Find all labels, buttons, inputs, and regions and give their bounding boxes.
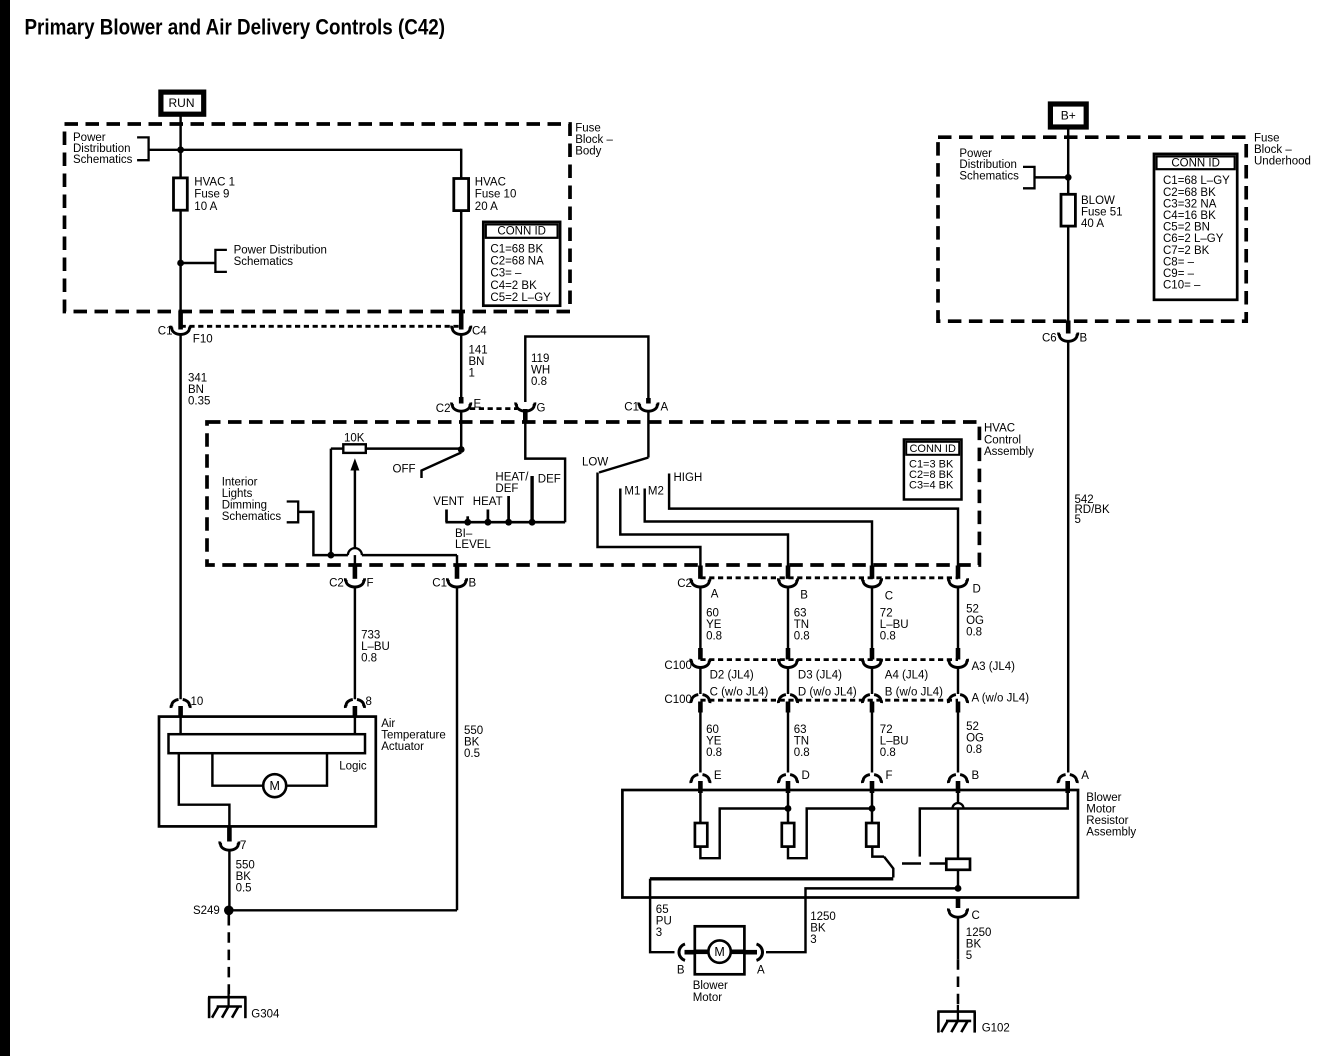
wire 52 OG upper bbox=[957, 588, 959, 650]
node relay output bbox=[955, 885, 962, 892]
svg-text:0.8: 0.8 bbox=[880, 631, 896, 643]
svg-text:A (w/o JL4): A (w/o JL4) bbox=[972, 692, 1030, 704]
contact HEAT/DEF bbox=[507, 496, 510, 522]
svg-text:60: 60 bbox=[706, 724, 719, 736]
connector C100 lower col 1 bbox=[691, 695, 698, 704]
node power distribution tap underhood bbox=[1065, 174, 1072, 181]
mode switch feed from G bbox=[523, 409, 528, 424]
svg-text:5: 5 bbox=[966, 950, 972, 962]
contact BI-LEVEL bbox=[466, 516, 469, 522]
connector C100 upper col 1 bbox=[698, 648, 703, 660]
connector C1 B bbox=[455, 566, 460, 579]
svg-text:TN: TN bbox=[794, 619, 809, 631]
svg-text:0.8: 0.8 bbox=[880, 747, 896, 759]
air temperature actuator box bbox=[159, 717, 376, 827]
in-harness dotted line C2 row bbox=[700, 576, 958, 579]
wire hop over wiper wire bbox=[348, 548, 362, 555]
svg-text:5: 5 bbox=[1075, 514, 1081, 526]
relay switch common bar bbox=[650, 877, 893, 880]
blower motor resistor assembly box bbox=[622, 790, 1078, 898]
svg-text:Schematics: Schematics bbox=[222, 511, 282, 523]
wire 65 PU to motor bbox=[650, 879, 674, 952]
svg-text:D: D bbox=[973, 584, 981, 596]
svg-text:3: 3 bbox=[810, 934, 816, 946]
in-connector dotted line E to G bbox=[470, 407, 517, 410]
wire 60 YE lower bbox=[699, 713, 701, 773]
wire 550 BK pin7 to S249 bbox=[228, 851, 230, 911]
node power distribution tap lower bbox=[177, 260, 184, 267]
svg-text:BN: BN bbox=[469, 356, 485, 368]
connector C2 E bbox=[459, 397, 464, 404]
svg-text:C3=4 BK: C3=4 BK bbox=[909, 479, 954, 491]
page edge bar bbox=[0, 0, 10, 1056]
wire 72 L-BU upper bbox=[871, 588, 873, 650]
svg-text:Assembly: Assembly bbox=[984, 446, 1034, 458]
svg-text:HVAC 1: HVAC 1 bbox=[194, 177, 235, 189]
svg-text:C2: C2 bbox=[436, 403, 451, 415]
svg-text:C4=16 BK: C4=16 BK bbox=[1163, 210, 1216, 222]
svg-text:Resistor: Resistor bbox=[1086, 815, 1128, 827]
connector C100 lower col 3 bbox=[862, 695, 869, 704]
actuator pin 7 internal wire bbox=[179, 753, 230, 826]
svg-text:C3=32 NA: C3=32 NA bbox=[1163, 198, 1217, 210]
svg-text:B: B bbox=[1080, 332, 1088, 344]
in-harness dotted line C100 upper row bbox=[700, 658, 958, 661]
svg-text:Interior: Interior bbox=[222, 477, 258, 489]
wire fuse51 to C6 bbox=[1067, 226, 1069, 321]
connector C100 lower col 2 bbox=[778, 695, 785, 704]
svg-text:C4=2 BK: C4=2 BK bbox=[490, 280, 537, 292]
svg-text:Underhood: Underhood bbox=[1254, 156, 1311, 168]
connector C6 B bbox=[1066, 321, 1071, 334]
wire fuse10 to connector C4 bbox=[460, 211, 462, 312]
connector C4 bbox=[459, 311, 464, 330]
svg-text:G: G bbox=[537, 403, 546, 415]
svg-text:72: 72 bbox=[880, 608, 893, 620]
fuse F9 HVAC 1 10A bbox=[174, 178, 188, 210]
resistor R1 bbox=[695, 823, 707, 847]
svg-text:52: 52 bbox=[966, 721, 979, 733]
svg-text:Motor: Motor bbox=[1086, 803, 1116, 815]
svg-text:40 A: 40 A bbox=[1081, 218, 1104, 230]
svg-text:0.8: 0.8 bbox=[794, 747, 810, 759]
svg-text:0.8: 0.8 bbox=[794, 631, 810, 643]
wire 1250 BK inside box bbox=[766, 888, 958, 952]
svg-text:A: A bbox=[1081, 770, 1089, 782]
svg-text:C: C bbox=[972, 910, 980, 922]
svg-text:LEVEL: LEVEL bbox=[455, 539, 491, 551]
actuator pin 10 bbox=[171, 699, 178, 708]
switch blade OFF position bbox=[422, 453, 462, 479]
wire 52 OG lower bbox=[957, 713, 959, 773]
svg-text:CONN ID: CONN ID bbox=[1171, 157, 1220, 169]
bus wire fuse9 to fuse10 bbox=[181, 149, 462, 151]
svg-text:C4: C4 bbox=[472, 325, 487, 337]
svg-text:A4 (JL4): A4 (JL4) bbox=[885, 670, 929, 682]
svg-text:B+: B+ bbox=[1061, 109, 1076, 123]
svg-text:C9= –: C9= – bbox=[1163, 268, 1195, 280]
resistor assembly pin D bbox=[778, 775, 785, 784]
svg-text:D2 (JL4): D2 (JL4) bbox=[710, 670, 754, 682]
svg-text:BK: BK bbox=[236, 871, 252, 883]
blower motor terminal A bbox=[757, 944, 763, 960]
svg-text:0.8: 0.8 bbox=[361, 652, 377, 664]
svg-text:A: A bbox=[757, 964, 765, 976]
svg-text:HVAC: HVAC bbox=[984, 423, 1015, 435]
wire 119 WH loop G to A bbox=[525, 337, 648, 403]
ground G102 bbox=[937, 1010, 976, 1013]
svg-text:C8= –: C8= – bbox=[1163, 256, 1195, 268]
wire C100 link col 3 bbox=[871, 669, 873, 695]
svg-text:Control: Control bbox=[984, 434, 1021, 446]
svg-text:119: 119 bbox=[531, 353, 549, 365]
wire 63 TN lower bbox=[787, 713, 789, 773]
wire C100 link col 1 bbox=[699, 669, 701, 695]
node power distribution tap upper bbox=[177, 146, 184, 153]
svg-text:C1=68 L–GY: C1=68 L–GY bbox=[1163, 175, 1230, 187]
svg-text:M: M bbox=[714, 945, 724, 959]
svg-text:HVAC: HVAC bbox=[475, 177, 506, 189]
resistor assembly pin B bbox=[948, 775, 955, 784]
svg-text:Power: Power bbox=[959, 148, 992, 160]
contact DEF bbox=[530, 476, 533, 522]
svg-text:BK: BK bbox=[966, 939, 982, 951]
wire RUN to fuse HVAC 1 bbox=[179, 115, 181, 179]
wire 10K left leg bbox=[330, 449, 332, 555]
svg-text:B (w/o JL4): B (w/o JL4) bbox=[885, 686, 943, 698]
connector C2 pin C bbox=[870, 566, 875, 579]
svg-text:OFF: OFF bbox=[393, 464, 416, 476]
actuator pin 8 bbox=[345, 699, 352, 708]
svg-text:Air: Air bbox=[381, 718, 395, 730]
svg-text:0.8: 0.8 bbox=[706, 631, 722, 643]
node D column bbox=[785, 805, 792, 812]
svg-text:3: 3 bbox=[656, 927, 662, 939]
svg-text:Fuse 9: Fuse 9 bbox=[194, 189, 229, 201]
svg-text:0.8: 0.8 bbox=[966, 744, 982, 756]
svg-text:Power Distribution: Power Distribution bbox=[234, 245, 327, 257]
actuator motor M bbox=[263, 774, 286, 797]
svg-text:0.5: 0.5 bbox=[236, 882, 252, 894]
svg-text:Fuse: Fuse bbox=[575, 123, 601, 135]
wire 60 YE upper bbox=[699, 588, 701, 650]
svg-text:C2: C2 bbox=[329, 578, 344, 590]
svg-text:HEAT: HEAT bbox=[473, 496, 503, 508]
wire 63 TN upper bbox=[787, 588, 789, 650]
conn id table body bbox=[483, 222, 560, 306]
svg-text:0.8: 0.8 bbox=[531, 376, 547, 388]
svg-text:S249: S249 bbox=[193, 905, 220, 917]
actuator pin 7 connector bbox=[227, 826, 232, 842]
relay switch blade bbox=[884, 857, 893, 878]
svg-text:Distribution: Distribution bbox=[959, 159, 1017, 171]
contact HEAT bbox=[487, 510, 490, 523]
wire pin E to resistor 1 bbox=[699, 792, 701, 823]
svg-text:Actuator: Actuator bbox=[381, 741, 424, 753]
svg-text:63: 63 bbox=[794, 608, 807, 620]
wire pin B to relay coil with hop bbox=[957, 792, 959, 803]
svg-text:Body: Body bbox=[575, 146, 601, 158]
blower motor terminal B bbox=[679, 944, 685, 960]
wire B+ to fuse 51 bbox=[1067, 127, 1069, 194]
connector C ground lead bbox=[956, 897, 961, 909]
wire 733 L-BU to actuator pin 8 bbox=[354, 588, 356, 700]
svg-text:Logic: Logic bbox=[339, 760, 367, 772]
svg-text:733: 733 bbox=[361, 629, 380, 641]
power distribution schematics reference lower bbox=[215, 250, 227, 272]
svg-text:LOW: LOW bbox=[582, 456, 608, 468]
connector C100 upper col 3 bbox=[870, 648, 875, 660]
svg-text:C2: C2 bbox=[677, 578, 692, 590]
wire pin D to resistor 2 bbox=[787, 792, 789, 823]
wire 550 BK from C1 B to S249 bbox=[456, 588, 458, 911]
svg-text:D: D bbox=[802, 770, 810, 782]
RUN ignition feed box bbox=[161, 92, 204, 114]
svg-text:YE: YE bbox=[706, 736, 722, 748]
wire 72 L-BU lower bbox=[871, 713, 873, 773]
svg-text:341: 341 bbox=[188, 373, 207, 385]
svg-text:HEAT/: HEAT/ bbox=[495, 471, 529, 483]
wire 341 BN to actuator pin 10 bbox=[179, 335, 181, 699]
svg-text:C (w/o JL4): C (w/o JL4) bbox=[710, 686, 769, 698]
relay actuation dashed link bbox=[902, 862, 945, 864]
svg-text:7: 7 bbox=[240, 840, 246, 852]
wire R2 link to F column bbox=[788, 809, 872, 859]
svg-text:D (w/o JL4): D (w/o JL4) bbox=[798, 686, 857, 698]
relay throw contact from pin A bbox=[920, 792, 1068, 857]
svg-text:OG: OG bbox=[966, 615, 984, 627]
svg-text:C1: C1 bbox=[158, 325, 173, 337]
in-harness dotted line C1 to C4 bbox=[181, 325, 462, 328]
svg-text:A: A bbox=[661, 402, 669, 414]
svg-text:0.8: 0.8 bbox=[966, 627, 982, 639]
wire R1 link to D column bbox=[700, 809, 788, 859]
svg-text:Blower: Blower bbox=[693, 980, 728, 992]
svg-text:Blower: Blower bbox=[1086, 792, 1121, 804]
hvac control assembly dashed box bbox=[207, 422, 979, 565]
contact VENT bbox=[445, 510, 448, 523]
blower motor box bbox=[695, 926, 745, 974]
node dimming junction bbox=[328, 552, 335, 559]
wire E to off switch bbox=[460, 411, 462, 450]
wire 542 RD/BK to resistor pin A bbox=[1067, 342, 1069, 773]
svg-text:1: 1 bbox=[469, 368, 475, 380]
svg-text:B: B bbox=[800, 589, 808, 601]
svg-text:Schematics: Schematics bbox=[234, 256, 294, 268]
svg-text:C3= –: C3= – bbox=[490, 268, 522, 280]
svg-text:A: A bbox=[711, 588, 719, 600]
wire fuse9 to connector C1 bbox=[179, 210, 181, 312]
wire C100 link col 4 bbox=[957, 669, 959, 695]
svg-text:M: M bbox=[269, 779, 279, 793]
svg-text:C100: C100 bbox=[664, 694, 692, 706]
connector C1 A bbox=[639, 403, 658, 412]
wire C100 link col 2 bbox=[787, 669, 789, 695]
svg-text:DEF: DEF bbox=[495, 483, 518, 495]
svg-text:CONN ID: CONN ID bbox=[497, 226, 546, 238]
connector C100 upper col 4 bbox=[956, 648, 961, 660]
svg-text:C5=2 BN: C5=2 BN bbox=[1163, 222, 1210, 234]
svg-text:C2=68 BK: C2=68 BK bbox=[1163, 187, 1216, 199]
connector C100 lower col 4 bbox=[948, 695, 955, 704]
svg-text:10K: 10K bbox=[344, 432, 365, 444]
ground G304 bbox=[208, 996, 247, 999]
potentiometer wiper arrow bbox=[350, 458, 359, 470]
mode contact bus bbox=[446, 521, 566, 524]
svg-text:72: 72 bbox=[880, 724, 893, 736]
actuator motor loop wires bbox=[212, 753, 263, 786]
connector C2 F bbox=[345, 578, 364, 587]
svg-text:10: 10 bbox=[191, 696, 204, 708]
svg-text:0.35: 0.35 bbox=[188, 396, 210, 408]
svg-text:C6=2 L–GY: C6=2 L–GY bbox=[1163, 233, 1224, 245]
svg-text:BK: BK bbox=[464, 737, 480, 749]
svg-text:Fuse 10: Fuse 10 bbox=[475, 189, 517, 201]
svg-text:L–BU: L–BU bbox=[361, 641, 390, 653]
resistor assembly pin A bbox=[1058, 775, 1065, 784]
svg-text:141: 141 bbox=[469, 345, 488, 357]
svg-text:BN: BN bbox=[188, 384, 204, 396]
svg-text:L–BU: L–BU bbox=[880, 619, 909, 631]
blower motor M symbol bbox=[708, 940, 730, 962]
wire to C1 B bbox=[362, 554, 457, 556]
in-harness dotted line C100 lower row bbox=[700, 699, 958, 702]
svg-text:Dimming: Dimming bbox=[222, 500, 267, 512]
svg-text:C2=68 NA: C2=68 NA bbox=[490, 256, 544, 268]
connector C100 upper col 2 bbox=[786, 648, 791, 660]
wire S249 to C1 B wire bbox=[229, 909, 457, 911]
wire R3 to relay switch bbox=[872, 847, 884, 857]
svg-text:Primary Blower and Air Deliver: Primary Blower and Air Delivery Controls… bbox=[25, 15, 446, 40]
svg-text:1250: 1250 bbox=[810, 911, 836, 923]
svg-text:20 A: 20 A bbox=[475, 201, 498, 213]
svg-text:63: 63 bbox=[794, 724, 807, 736]
blower switch blade LOW bbox=[647, 411, 649, 458]
svg-text:BLOW: BLOW bbox=[1081, 195, 1115, 207]
svg-text:Motor: Motor bbox=[693, 992, 723, 1004]
svg-text:Fuse: Fuse bbox=[1254, 133, 1280, 145]
svg-text:M2: M2 bbox=[648, 486, 664, 498]
svg-text:F10: F10 bbox=[193, 333, 213, 345]
svg-text:F: F bbox=[886, 770, 893, 782]
svg-text:60: 60 bbox=[706, 608, 719, 620]
svg-text:0.5: 0.5 bbox=[464, 748, 480, 760]
B+ battery feed box bbox=[1050, 104, 1086, 127]
svg-text:52: 52 bbox=[966, 604, 979, 616]
svg-text:Assembly: Assembly bbox=[1086, 826, 1136, 838]
svg-text:Schematics: Schematics bbox=[73, 154, 133, 166]
resistor assembly pin E bbox=[691, 775, 698, 784]
svg-text:Fuse 51: Fuse 51 bbox=[1081, 207, 1123, 219]
svg-text:C1=68 BK: C1=68 BK bbox=[490, 243, 543, 255]
resistor R3 bbox=[866, 823, 878, 847]
svg-text:VENT: VENT bbox=[433, 496, 464, 508]
fuse F51 BLOW 40A bbox=[1061, 194, 1075, 226]
svg-text:M1: M1 bbox=[624, 486, 640, 498]
wire wiper to C2 F bbox=[354, 555, 356, 567]
resistor assembly pin F bbox=[862, 775, 869, 784]
svg-text:RUN: RUN bbox=[169, 96, 195, 110]
svg-text:550: 550 bbox=[464, 725, 483, 737]
dashed ground lead to G304 bbox=[228, 915, 231, 994]
svg-text:Lights: Lights bbox=[222, 488, 253, 500]
resistor R2 bbox=[782, 823, 794, 847]
connector C2 pin D bbox=[956, 566, 961, 579]
svg-text:B: B bbox=[972, 770, 980, 782]
svg-text:65: 65 bbox=[656, 904, 669, 916]
svg-text:B: B bbox=[469, 578, 477, 590]
svg-text:PU: PU bbox=[656, 915, 672, 927]
svg-text:10 A: 10 A bbox=[194, 201, 217, 213]
svg-text:C100: C100 bbox=[664, 660, 692, 672]
svg-text:L–BU: L–BU bbox=[880, 736, 909, 748]
svg-text:Block –: Block – bbox=[1254, 144, 1292, 156]
relay coil bbox=[946, 859, 970, 870]
svg-text:Block –: Block – bbox=[575, 134, 613, 146]
node blower switch feed bbox=[458, 446, 465, 453]
svg-text:C7=2 BK: C7=2 BK bbox=[1163, 245, 1210, 257]
svg-text:DEF: DEF bbox=[538, 474, 561, 486]
svg-text:WH: WH bbox=[531, 365, 550, 377]
svg-text:D3 (JL4): D3 (JL4) bbox=[798, 670, 842, 682]
svg-text:A3 (JL4): A3 (JL4) bbox=[972, 661, 1016, 673]
svg-text:C1: C1 bbox=[432, 578, 447, 590]
svg-text:OG: OG bbox=[966, 733, 984, 745]
svg-text:G102: G102 bbox=[982, 1023, 1010, 1035]
conn id table hvac bbox=[904, 440, 962, 500]
svg-text:C5=2 L–GY: C5=2 L–GY bbox=[490, 292, 551, 304]
svg-text:HIGH: HIGH bbox=[674, 472, 703, 484]
fuse block - underhood dashed box bbox=[938, 137, 1246, 321]
connector C2 pin A bbox=[698, 566, 703, 579]
svg-text:8: 8 bbox=[366, 696, 372, 708]
svg-text:C6: C6 bbox=[1042, 332, 1057, 344]
svg-text:G304: G304 bbox=[251, 1008, 280, 1020]
svg-text:C1: C1 bbox=[624, 402, 639, 414]
conn id table underhood bbox=[1154, 154, 1237, 300]
svg-text:TN: TN bbox=[794, 736, 809, 748]
svg-text:Schematics: Schematics bbox=[959, 170, 1019, 182]
wire pin F to resistor 3 bbox=[871, 792, 873, 823]
svg-text:550: 550 bbox=[236, 859, 255, 871]
svg-text:0.8: 0.8 bbox=[706, 747, 722, 759]
svg-text:BK: BK bbox=[810, 922, 826, 934]
svg-text:C: C bbox=[885, 590, 893, 602]
svg-text:BI–: BI– bbox=[455, 528, 473, 540]
svg-text:CONN ID: CONN ID bbox=[909, 443, 956, 455]
contact LOW to C2 A bbox=[598, 473, 701, 568]
dashed ground lead to G102 bbox=[957, 959, 960, 1008]
svg-text:1250: 1250 bbox=[966, 927, 992, 939]
actuator logic bar bbox=[179, 718, 181, 735]
splice S249 bbox=[224, 906, 234, 916]
fuse F10 HVAC 20A bbox=[454, 179, 469, 211]
fuse block - body dashed box bbox=[65, 124, 571, 312]
svg-text:E: E bbox=[714, 770, 722, 782]
wire 141 BN to C2 E bbox=[460, 335, 462, 398]
svg-text:B: B bbox=[677, 964, 685, 976]
connector G bbox=[516, 403, 535, 412]
svg-text:C10= –: C10= – bbox=[1163, 280, 1201, 292]
svg-text:Temperature: Temperature bbox=[381, 729, 446, 741]
node F column bbox=[869, 805, 876, 812]
connector C2 pin B bbox=[786, 566, 791, 579]
svg-text:YE: YE bbox=[706, 619, 722, 631]
connector C1 F10 bbox=[178, 311, 183, 330]
svg-text:F: F bbox=[367, 578, 374, 590]
